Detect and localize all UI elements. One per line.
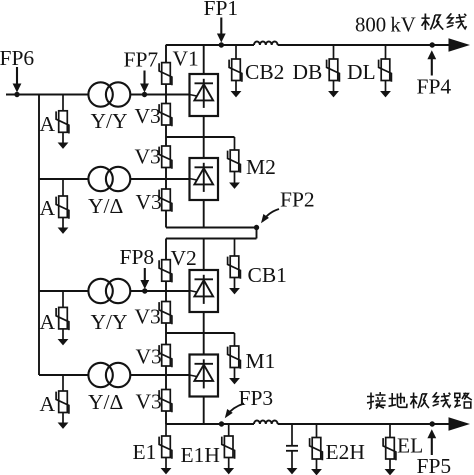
transformer T1 Y/Y: [88, 82, 130, 106]
svg-text:V3: V3: [135, 145, 161, 169]
arrester A3 ground lead: [62, 329, 64, 339]
arrester E1H ground lead: [228, 458, 230, 469]
svg-text:800 kV: 800 kV: [355, 14, 416, 37]
transformer T2 Y/D: [88, 167, 130, 191]
arrester A2 symbol: [56, 196, 69, 219]
svg-text:FP1: FP1: [204, 0, 239, 20]
arrester V3-6 symbol: [159, 390, 172, 413]
wire lower group top line: [166, 238, 257, 240]
arrester M1 ground lead: [234, 368, 236, 379]
svg-text:V2: V2: [171, 246, 197, 270]
capacitor C stub: [291, 424, 293, 445]
arrester DB ground lead: [333, 81, 335, 92]
ground arrow E2H: [311, 469, 322, 475]
wire FP2 link vertical: [256, 228, 258, 239]
arrester A1 ground lead: [62, 132, 64, 142]
ground arrow A3: [58, 339, 69, 345]
arrester E2H stub: [316, 424, 318, 438]
node FP8: [142, 288, 147, 293]
han glyph xian (line) bottom: [433, 392, 451, 407]
converter valve box 2: [190, 158, 219, 200]
arrester V3-3 symbol: [159, 189, 172, 212]
arrester V2 symbol: [159, 260, 172, 283]
svg-text:V3: V3: [135, 104, 161, 128]
arrester V1 symbol: [159, 63, 172, 86]
svg-text:DL: DL: [347, 60, 376, 84]
arrester CB1 ground lead: [234, 278, 236, 289]
han glyph ji (pole) top: [421, 14, 443, 30]
arrester CB2 ground lead: [235, 81, 237, 92]
arrester E1H stub: [228, 424, 230, 436]
arrester M2 symbol: [228, 150, 241, 173]
wire upper YY line: [6, 94, 190, 96]
wire upper mid line: [166, 136, 235, 138]
svg-text:A: A: [40, 112, 56, 136]
svg-text:FP8: FP8: [120, 245, 155, 269]
arrester E1 ground lead: [165, 458, 167, 469]
svg-text:V3: V3: [135, 305, 161, 329]
ground arrow A4: [58, 423, 69, 429]
ground arrow E1: [161, 468, 172, 474]
wire bottom bus left segment: [166, 423, 254, 425]
arrester EL symbol: [383, 438, 396, 461]
arrester V3-2 symbol: [159, 146, 172, 169]
pointer FP2 curved arrow: [258, 209, 279, 225]
arrester V3-1 symbol: [159, 104, 172, 127]
svg-text:E2H: E2H: [326, 440, 365, 464]
wire left AC bus vertical: [38, 94, 40, 375]
wire valve3 top stub: [203, 239, 205, 271]
wire lower YY line: [39, 290, 190, 292]
arrester A3 symbol: [56, 307, 69, 330]
wire valve1-valve2 link: [203, 116, 205, 158]
node FP7: [142, 92, 147, 97]
arrester E1 symbol: [159, 436, 172, 459]
arrester V3-5 symbol: [159, 345, 172, 368]
wire upper YD line: [39, 178, 190, 180]
ground arrow CB2: [231, 91, 242, 97]
node FP6: [14, 92, 19, 97]
node FP1: [219, 42, 224, 47]
svg-text:Y/Δ: Y/Δ: [88, 194, 124, 218]
wire top bus left segment: [166, 44, 254, 46]
pointer FP6 arrow: [13, 67, 22, 93]
capacitor C plates: [286, 446, 298, 451]
svg-text:V3: V3: [136, 190, 162, 214]
svg-text:FP3: FP3: [239, 386, 274, 410]
svg-text:CB2: CB2: [245, 60, 284, 84]
arrester E2H symbol: [310, 438, 323, 461]
arrester M1 symbol: [228, 346, 241, 369]
svg-text:A: A: [40, 310, 56, 334]
svg-text:Y/Y: Y/Y: [91, 310, 128, 334]
han glyph xian (line) top: [447, 13, 467, 28]
svg-text:Y/Δ: Y/Δ: [88, 390, 124, 414]
arrester CB1 symbol: [228, 256, 241, 279]
han glyph di (ground) bottom: [389, 393, 408, 408]
wire lower valve chain vertical: [165, 239, 167, 425]
arrowhead ground electrode line: [449, 417, 471, 430]
wire lower YD line: [39, 374, 190, 376]
inductor L-bottom smoothing reactor: [254, 421, 278, 425]
arrester DB symbol: [327, 59, 340, 82]
converter valve box 1: [190, 74, 219, 116]
arrester A1 symbol: [56, 111, 69, 134]
han glyph lu (road) bottom: [455, 393, 472, 408]
arrester EL ground lead: [389, 459, 391, 469]
arrester E1 stub: [165, 424, 167, 436]
ground arrow E1H: [223, 468, 234, 474]
svg-text:FP5: FP5: [417, 454, 452, 475]
node FP5: [430, 421, 435, 426]
inductor L-top smoothing reactor: [254, 42, 278, 46]
ground arrow C: [287, 468, 298, 474]
arrester A1 stub: [62, 95, 64, 111]
svg-text:V3: V3: [136, 390, 162, 414]
transformer T3 Y/Y: [88, 279, 130, 303]
wire upper valve chain vertical: [165, 45, 167, 228]
pointer FP8 arrow: [140, 268, 149, 289]
pointer FP3 curved arrow: [222, 404, 244, 421]
svg-text:V3: V3: [136, 345, 162, 369]
svg-text:A: A: [40, 196, 56, 220]
pointer FP1 arrow: [217, 18, 226, 43]
wire bottom bus right segment: [278, 423, 449, 425]
arrester EL stub: [389, 424, 391, 438]
svg-text:Y/Y: Y/Y: [91, 109, 128, 133]
arrester M2 ground lead: [234, 172, 236, 183]
svg-text:FP2: FP2: [280, 188, 315, 212]
arrester CB1 stub: [234, 239, 236, 257]
svg-text:FP7: FP7: [124, 48, 159, 72]
svg-text:A: A: [40, 392, 56, 416]
svg-text:M2: M2: [246, 155, 276, 179]
svg-text:M1: M1: [246, 349, 276, 373]
pointer FP5 arrow: [427, 429, 436, 455]
ground arrow CB1: [229, 288, 240, 294]
wire valve2 bottom stub: [203, 200, 205, 228]
arrowhead 800kV line: [449, 38, 471, 51]
capacitor C ground lead: [291, 452, 293, 469]
arrester A4 stub: [62, 375, 64, 391]
node FP4: [430, 42, 435, 47]
ground arrow DL: [380, 91, 391, 97]
arrester M2 stub: [234, 137, 236, 150]
converter valve box 3: [190, 270, 219, 312]
ground arrow EL: [385, 469, 396, 475]
svg-text:E1: E1: [133, 440, 157, 464]
ground arrow A2: [58, 228, 69, 234]
ground arrow M1: [229, 378, 240, 384]
arrester DL ground lead: [385, 81, 387, 92]
arrester A4 symbol: [56, 391, 69, 414]
arrester DL symbol: [379, 59, 392, 82]
arrester E1H symbol: [222, 436, 235, 459]
han glyph ji (pole) bottom: [410, 393, 429, 409]
wire lower mid line: [166, 332, 235, 334]
svg-text:FP4: FP4: [417, 75, 452, 99]
transformer T4 Y/D: [88, 363, 130, 387]
pointer FP7 arrow: [140, 71, 149, 93]
ground arrow DB: [328, 91, 339, 97]
svg-text:CB1: CB1: [248, 263, 287, 287]
arrester V3-4 symbol: [159, 302, 172, 325]
svg-text:V1: V1: [173, 47, 199, 71]
arrester M1 stub: [234, 333, 236, 346]
wire valve4 bottom stub: [203, 397, 205, 425]
wire upper group bottom line: [166, 227, 257, 229]
node FP2: [254, 225, 259, 230]
ground arrow M2: [229, 183, 240, 189]
converter valve box 4: [190, 355, 219, 397]
ground arrow A1: [58, 143, 69, 149]
svg-text:DB: DB: [293, 60, 323, 84]
arrester A3 stub: [62, 291, 64, 307]
node FP3: [219, 421, 224, 426]
arrester DB stub: [333, 45, 335, 59]
wire valve3-valve4 link: [203, 312, 205, 355]
arrester CB2 stub: [235, 45, 237, 59]
wire valve1 top stub: [203, 45, 205, 74]
arrester E2H ground lead: [316, 459, 318, 469]
arrester A2 ground lead: [62, 218, 64, 228]
arrester DL stub: [385, 45, 387, 59]
svg-text:E1H: E1H: [181, 443, 220, 467]
wire top bus right segment: [278, 44, 449, 46]
han glyph jie (connect) bottom: [367, 392, 386, 409]
svg-text:FP6: FP6: [0, 46, 34, 70]
arrester A4 ground lead: [62, 413, 64, 423]
pointer FP4 arrow: [427, 50, 436, 75]
arrester CB2 symbol: [229, 59, 242, 82]
arrester A2 stub: [62, 179, 64, 196]
